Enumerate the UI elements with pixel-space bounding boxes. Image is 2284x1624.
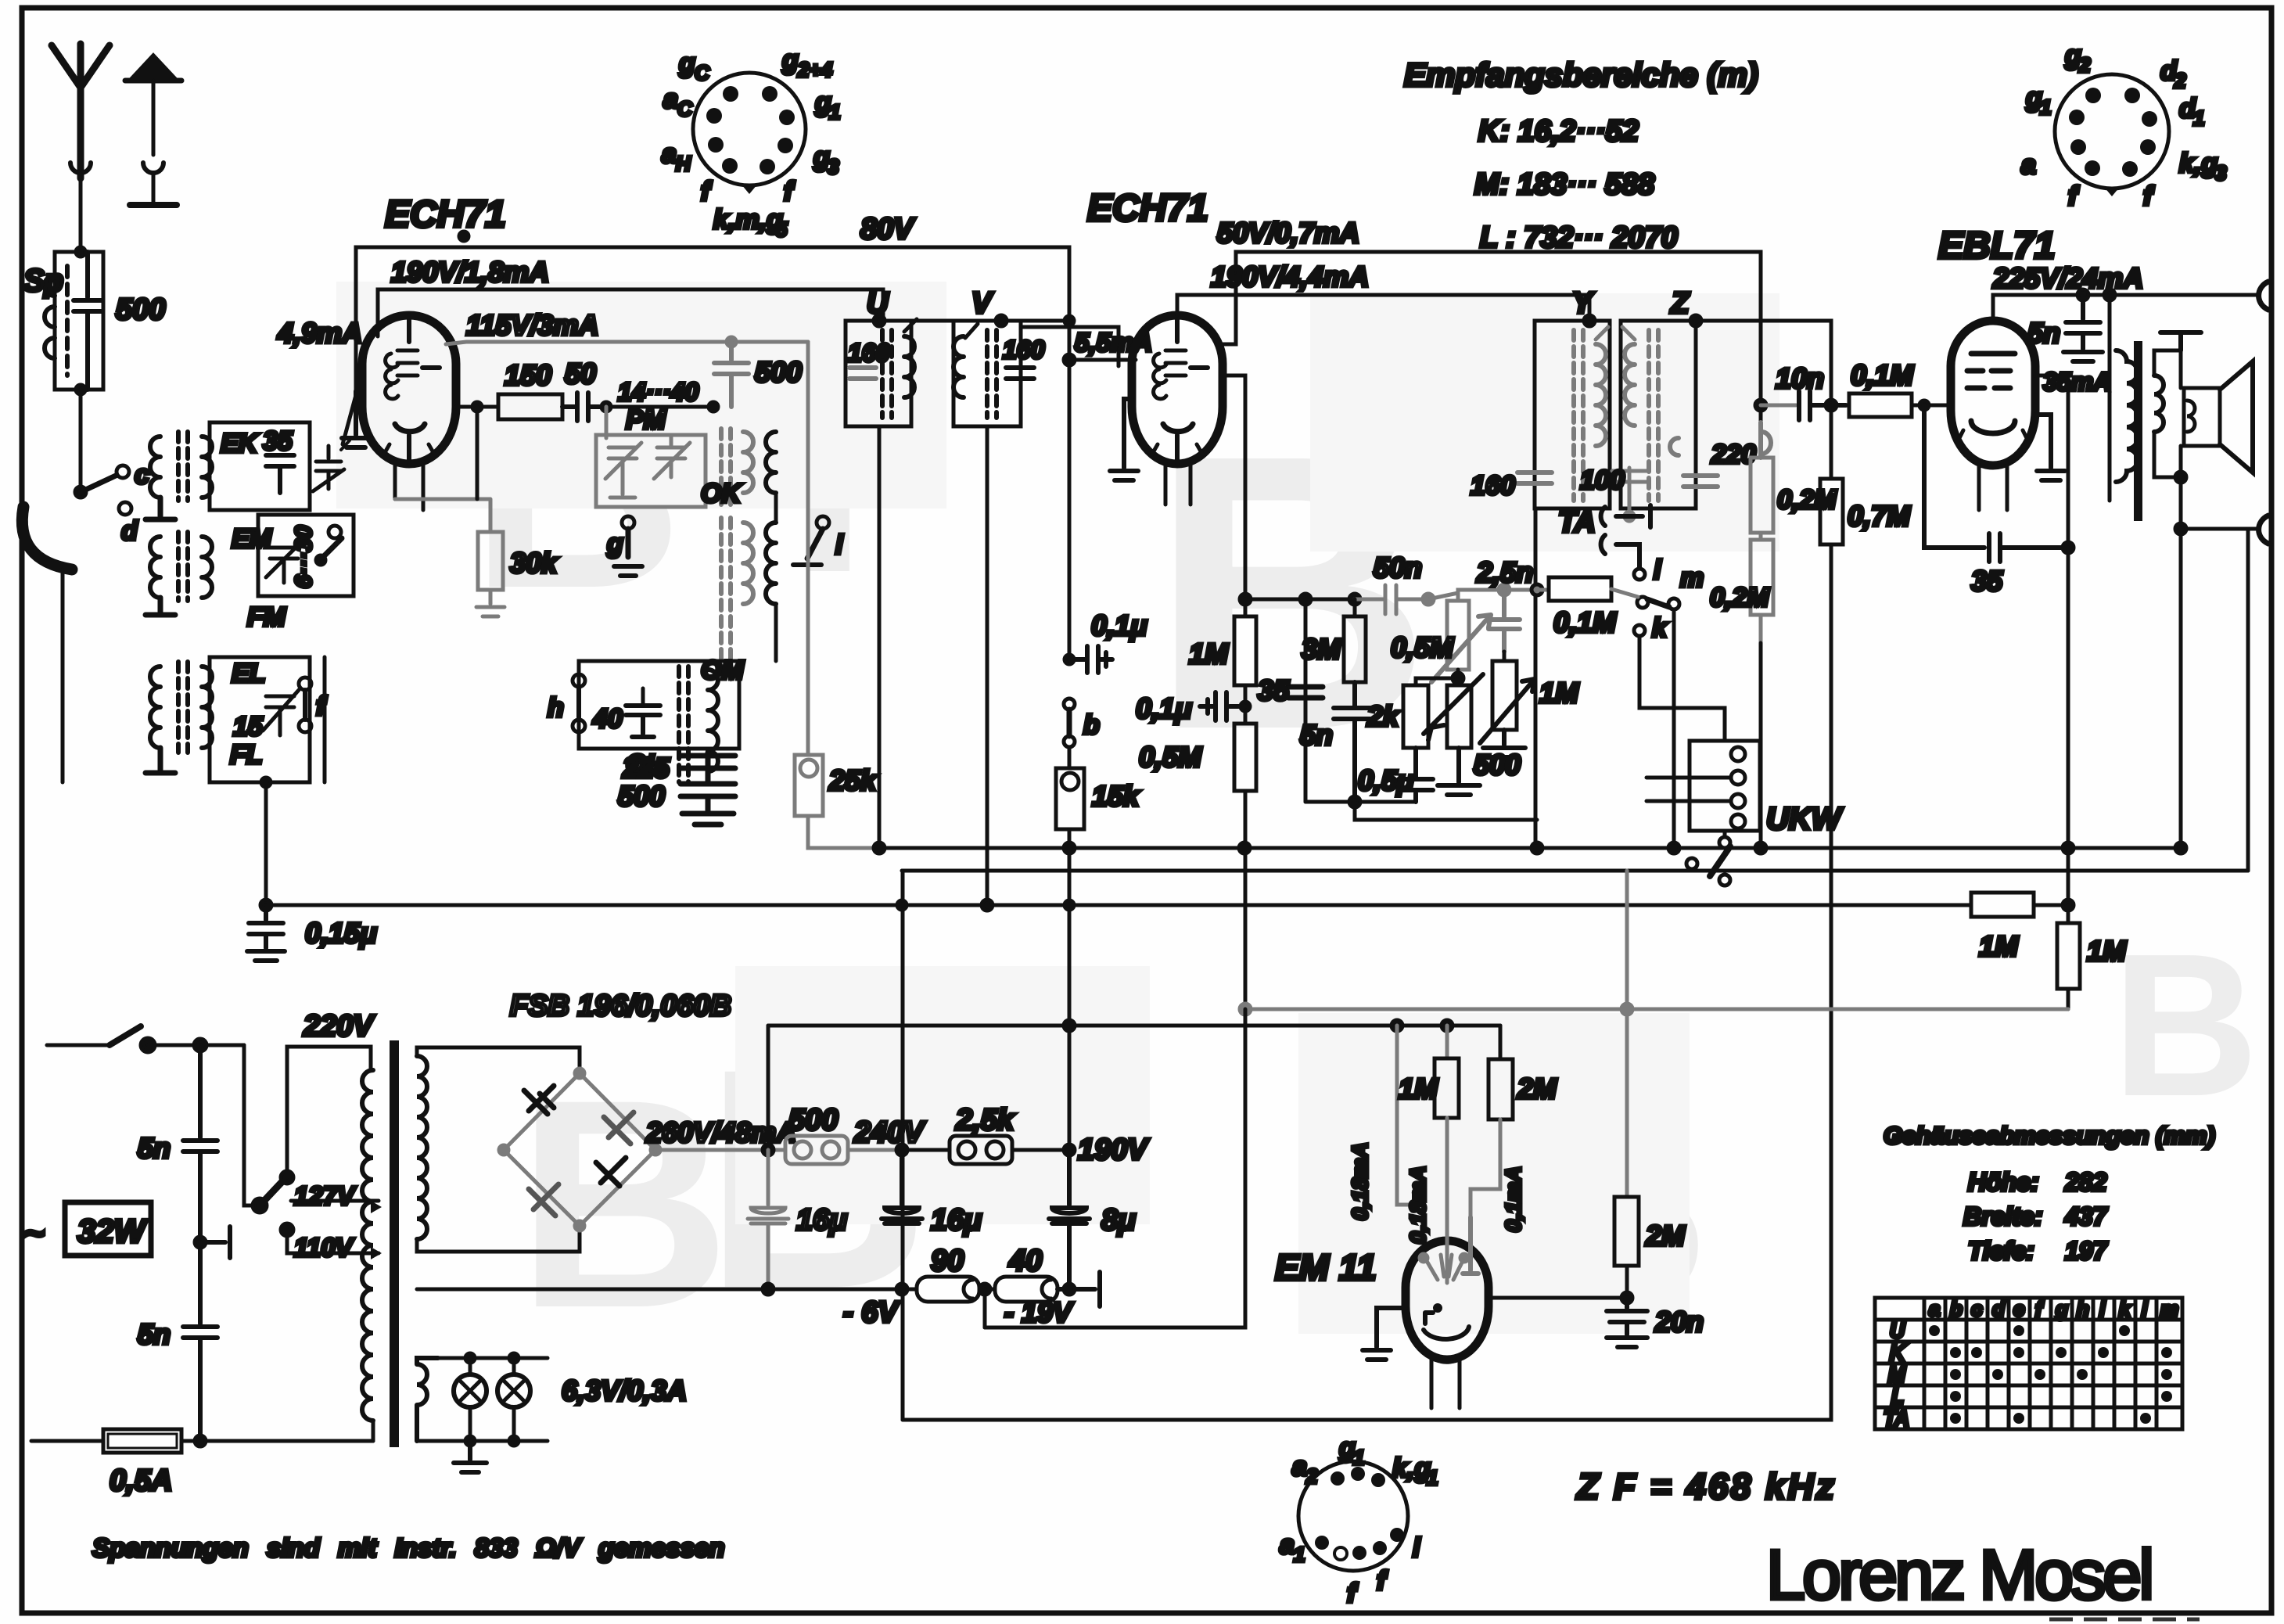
svg-text:e: e <box>2013 1297 2024 1320</box>
wire 190V/1,8mA <box>378 289 883 336</box>
svg-text:Z F = 468 kHz: Z F = 468 kHz <box>1575 1466 1837 1507</box>
svg-text:1: 1 <box>2040 95 2051 119</box>
svg-text:0,7M: 0,7M <box>1848 500 1911 532</box>
10n cap / 0,1M row <box>1755 400 1766 411</box>
switch l m k <box>1634 569 1645 580</box>
svg-text:500: 500 <box>116 293 165 326</box>
band switch c/d <box>75 487 86 498</box>
500 pot <box>1447 685 1471 748</box>
svg-text:15: 15 <box>233 712 264 742</box>
bus y=1157 with 1M resistors right <box>266 904 1971 907</box>
svg-text:TA: TA <box>1884 1407 1909 1430</box>
bus y=1113 <box>902 869 2248 873</box>
mains switch <box>47 1044 110 1047</box>
svg-text:5n: 5n <box>138 1318 171 1350</box>
svg-text:15k: 15k <box>1092 780 1140 812</box>
svg-text:ECH71: ECH71 <box>1087 188 1208 229</box>
output transformer <box>2108 295 2112 350</box>
svg-text:0,1μ: 0,1μ <box>1136 692 1192 724</box>
svg-text:Z: Z <box>1670 287 1690 320</box>
svg-text:OK: OK <box>701 479 742 508</box>
transformer primary coil <box>362 1070 373 1421</box>
svg-text:1: 1 <box>1353 1446 1364 1469</box>
svg-text:20n: 20n <box>1654 1306 1704 1338</box>
svg-text:h: h <box>548 693 564 723</box>
svg-text:m: m <box>2160 1297 2178 1320</box>
-6V bus <box>417 1288 917 1292</box>
svg-text:1M: 1M <box>2087 935 2127 967</box>
svg-text:M: 183··· 588: M: 183··· 588 <box>1474 168 1655 201</box>
svg-text:k: k <box>1652 613 1668 643</box>
EM11 ground <box>1363 1308 1406 1360</box>
fuse 0,5A <box>31 1439 103 1443</box>
svg-text:a: a <box>1929 1297 1940 1320</box>
0,2M resistor upper <box>1751 422 1773 533</box>
gray 115V/3mA anode line <box>446 337 808 407</box>
IF transformer Z <box>1621 287 1756 508</box>
svg-text:B: B <box>516 1037 731 1370</box>
svg-text:16μ: 16μ <box>931 1204 982 1237</box>
tube1 grid lead + ground <box>342 391 370 447</box>
svg-text:5n: 5n <box>138 1132 171 1164</box>
antenna coil EM group <box>145 515 354 632</box>
svg-text:B: B <box>2112 912 2259 1139</box>
svg-text:0,1mA: 0,1mA <box>1501 1166 1525 1232</box>
svg-text:d: d <box>121 516 138 546</box>
resistor 0,5M <box>1234 724 1256 791</box>
svg-text:0,15μ: 0,15μ <box>305 917 377 949</box>
svg-text:10n: 10n <box>1776 362 1824 394</box>
curved antenna coupling arc <box>22 507 72 569</box>
speaker <box>2184 388 2220 446</box>
filter caps 16u 16u 8u <box>748 1150 788 1289</box>
tube heater leads <box>1979 465 2007 510</box>
svg-text:Tiefe:: Tiefe: <box>1968 1237 2034 1265</box>
tube1 heater leads <box>395 462 423 510</box>
svg-text:160: 160 <box>1003 336 1045 364</box>
svg-text:FM: FM <box>247 602 286 632</box>
5n cap <box>1334 682 1376 802</box>
svg-text:K: K <box>1890 1341 1906 1364</box>
hexode anode down to detector <box>1223 375 1245 599</box>
svg-text:50n: 50n <box>1374 552 1422 584</box>
UKW switch <box>1719 837 1730 848</box>
svg-text:1: 1 <box>2193 106 2204 130</box>
svg-text:220V: 220V <box>303 1010 375 1043</box>
svg-text:197: 197 <box>2065 1237 2109 1265</box>
gray cathode network with 30k <box>395 499 505 616</box>
svg-text:2M: 2M <box>1645 1220 1686 1252</box>
svg-text:L: L <box>1891 1385 1904 1408</box>
wire U/V top bus <box>879 319 1069 323</box>
svg-text:g: g <box>606 529 623 559</box>
svg-text:35: 35 <box>1258 674 1290 706</box>
resistor 1M (first IF return) <box>1244 599 1248 616</box>
svg-text:190V: 190V <box>1078 1134 1149 1166</box>
svg-text:1M: 1M <box>1539 677 1579 709</box>
IF transformer V <box>953 287 1045 426</box>
wire Sp down <box>79 390 83 489</box>
svg-text:a: a <box>1292 1452 1307 1482</box>
svg-text:b: b <box>1950 1297 1963 1320</box>
switch position table <box>1875 1298 2182 1429</box>
svg-text:8μ: 8μ <box>1101 1204 1136 1237</box>
svg-text:C: C <box>677 97 693 120</box>
svg-text:C: C <box>695 61 710 84</box>
svg-text:0,5M: 0,5M <box>1139 741 1202 773</box>
watermark <box>469 317 2259 1373</box>
counterpoise antenna symbol <box>125 55 181 205</box>
cathode ground <box>2035 415 2065 480</box>
svg-text:3M: 3M <box>1302 633 1341 665</box>
240V rail up <box>767 1026 770 1150</box>
svg-text:2,5k: 2,5k <box>955 1104 1015 1137</box>
tube socket pinout EBL71 (top right) <box>2055 74 2169 196</box>
svg-text:40: 40 <box>1008 1245 1042 1277</box>
svg-text:190V/1,8mA: 190V/1,8mA <box>391 256 549 288</box>
svg-text:225V/24mA: 225V/24mA <box>1992 262 2143 294</box>
0,5u cap <box>1399 748 1433 802</box>
tube2 heater leads <box>1165 463 1190 505</box>
svg-text:500: 500 <box>618 780 665 812</box>
svg-text:Breite:: Breite: <box>1963 1202 2042 1231</box>
resistor 150 <box>498 394 562 419</box>
2,5k dropper <box>902 1148 950 1152</box>
svg-text:500: 500 <box>755 356 802 388</box>
svg-text:c: c <box>135 460 149 490</box>
svg-text:0,5M: 0,5M <box>1391 631 1454 663</box>
oscillator padder box with trimmers <box>596 407 706 507</box>
svg-text:i: i <box>2099 1297 2106 1320</box>
svg-text:190V/4,4mA: 190V/4,4mA <box>1211 260 1369 293</box>
wire 150 junction down <box>476 407 479 499</box>
EM11 grid wire to 20n <box>1489 1296 1627 1300</box>
svg-text:110V: 110V <box>294 1233 355 1262</box>
dial lamps <box>454 1374 487 1407</box>
vertical U / V returns <box>878 426 882 848</box>
switch g <box>622 516 634 529</box>
svg-text:240V: 240V <box>853 1116 925 1149</box>
UKW connector box <box>1690 741 1760 831</box>
wires input cluster to ground bus <box>264 782 268 905</box>
transformer core <box>390 1040 399 1447</box>
svg-text:Gehäuseabmessungen (mm): Gehäuseabmessungen (mm) <box>1884 1122 2215 1149</box>
svg-text:1M: 1M <box>1189 638 1229 670</box>
grid wire <box>1924 404 1951 408</box>
svg-text:EBL71: EBL71 <box>1938 225 2055 267</box>
volume pot 0,5M gray <box>1431 590 1504 682</box>
svg-text:6,3V/0,3A: 6,3V/0,3A <box>562 1374 687 1407</box>
svg-text:0,18mA: 0,18mA <box>1406 1166 1430 1244</box>
svg-text:l: l <box>2142 1297 2148 1320</box>
svg-text:Sp: Sp <box>23 264 63 298</box>
svg-text:437: 437 <box>2064 1202 2109 1231</box>
5n cap + ground <box>2063 295 2103 361</box>
svg-text:30k: 30k <box>510 547 558 579</box>
capacitor 225 <box>681 753 735 771</box>
svg-text:2+4: 2+4 <box>797 58 833 81</box>
vertical 80V rail down: 0,1u cap and switch b and 15k <box>1068 360 1072 657</box>
phones jack top right <box>2259 282 2268 310</box>
tube EM11 <box>1406 1241 1489 1360</box>
svg-text:H: H <box>676 152 691 175</box>
svg-text:Lorenz Mosel: Lorenz Mosel <box>1766 1536 2151 1615</box>
svg-text:i: i <box>835 530 844 560</box>
100 cap gray to TA <box>1612 468 1647 521</box>
svg-text:a: a <box>2021 150 2036 180</box>
tube socket pinout EM11 (bottom) <box>1298 1461 1408 1571</box>
svg-text:100: 100 <box>1580 465 1625 495</box>
capacitor 500 <box>681 768 735 810</box>
svg-text:3: 3 <box>828 155 839 178</box>
svg-text:2: 2 <box>2078 53 2091 77</box>
svg-text:k,g: k,g <box>1392 1453 1431 1483</box>
svg-text:EL: EL <box>232 659 265 688</box>
switch i <box>817 516 829 529</box>
ground <box>682 814 734 825</box>
svg-text:0,1M: 0,1M <box>1553 606 1617 638</box>
tube ECH71 no.1 <box>362 315 456 464</box>
wire antenna to Sp coil <box>79 174 83 252</box>
svg-text:1: 1 <box>1427 1466 1438 1489</box>
heater secondary 6,3V <box>417 1358 438 1441</box>
svg-text:2k: 2k <box>1366 700 1400 732</box>
voltage selector <box>244 1045 260 1205</box>
svg-text:L : 732··· 2070: L : 732··· 2070 <box>1480 221 1678 254</box>
svg-text:150: 150 <box>505 359 551 391</box>
svg-text:U: U <box>1890 1319 1905 1342</box>
tube socket pinout ECH71 (top middle) <box>693 73 806 194</box>
svg-text:k,g: k,g <box>2179 149 2218 178</box>
svg-text:k: k <box>2119 1297 2131 1320</box>
svg-text:k,m,g: k,m,g <box>713 205 783 235</box>
wire oscillator coil links <box>774 493 778 661</box>
svg-text:d: d <box>1992 1297 2006 1320</box>
IF transformer U <box>846 287 917 426</box>
chassis tap <box>195 1237 206 1248</box>
svg-text:160: 160 <box>1471 471 1515 501</box>
svg-text:0,5μ: 0,5μ <box>1358 764 1414 796</box>
svg-text:0,2M: 0,2M <box>1710 583 1769 613</box>
svg-text:0,1M: 0,1M <box>1851 359 1914 391</box>
svg-text:ECH71: ECH71 <box>385 194 506 235</box>
90 / 40 resistors <box>917 1277 979 1302</box>
svg-text:2,5n: 2,5n <box>1476 556 1533 588</box>
svg-text:a: a <box>662 139 677 169</box>
1M tone pot <box>1503 652 1507 661</box>
grid wire to 150 resistor <box>456 405 498 409</box>
svg-text:V: V <box>971 287 993 320</box>
oscillator coil OL box <box>548 661 739 782</box>
long bus y=1084 <box>879 846 2181 850</box>
bridge rectifier <box>499 1069 660 1231</box>
svg-text:g: g <box>781 45 799 75</box>
svg-text:EM: EM <box>232 524 272 554</box>
svg-text:Spannungen sind mit Instr.: Spannungen sind mit Instr. 833 Ω/V gemes… <box>92 1533 724 1562</box>
svg-text:5n: 5n <box>1300 719 1333 751</box>
5,5mA feed <box>1064 354 1075 365</box>
svg-text:0,5A: 0,5A <box>110 1464 172 1497</box>
svg-text:1M: 1M <box>1399 1072 1438 1105</box>
EM11 divider resistors <box>1397 1026 1447 1205</box>
svg-text:90: 90 <box>931 1245 964 1277</box>
svg-text:a: a <box>663 84 678 114</box>
wire Z top to detector rail <box>1696 321 1831 405</box>
svg-text:0,18mA: 0,18mA <box>1348 1142 1372 1220</box>
svg-text:TA: TA <box>1558 506 1596 539</box>
svg-text:282: 282 <box>2064 1168 2107 1196</box>
svg-text:32W: 32W <box>77 1213 148 1249</box>
0,7M resistor <box>1830 405 1833 479</box>
svg-text:a: a <box>1280 1530 1295 1560</box>
gray vertical 115V rail down to 25k <box>795 342 879 848</box>
2,5n cap gray <box>1489 584 1537 652</box>
35 feedback cap loop <box>1924 405 2068 562</box>
svg-text:FSB 196/0,060B: FSB 196/0,060B <box>510 990 731 1022</box>
svg-text:1: 1 <box>829 100 840 124</box>
svg-text:~: ~ <box>23 1213 45 1253</box>
svg-text:50: 50 <box>565 357 596 390</box>
svg-text:l: l <box>1413 1533 1421 1563</box>
bottom loop of detector network <box>1305 800 1416 804</box>
svg-text:40: 40 <box>592 704 623 734</box>
capacitor 0,15u to ground <box>247 900 285 961</box>
svg-text:35mA: 35mA <box>2043 368 2111 396</box>
gray AVC bus y=1290 <box>1240 1004 2068 1015</box>
svg-text:3: 3 <box>2215 161 2227 185</box>
svg-text:127V: 127V <box>294 1181 357 1210</box>
svg-text:Empfangsbereiche (m): Empfangsbereiche (m) <box>1404 56 1758 93</box>
20n cap + ground <box>1607 1298 1647 1347</box>
svg-text:0,1μ: 0,1μ <box>1091 609 1147 641</box>
svg-text:Höhe:: Höhe: <box>1968 1168 2039 1196</box>
OM coil set <box>721 518 753 673</box>
svg-text:1: 1 <box>1294 1543 1305 1566</box>
svg-text:EM 11: EM 11 <box>1275 1247 1377 1288</box>
svg-text:b: b <box>1083 710 1100 740</box>
svg-text:115V/3mA: 115V/3mA <box>466 309 598 341</box>
svg-text:g: g <box>2055 1297 2068 1320</box>
svg-text:14···40: 14···40 <box>618 378 698 406</box>
svg-text:500: 500 <box>1474 749 1521 781</box>
500 dropper <box>785 1136 902 1164</box>
svg-text:m: m <box>1680 563 1704 593</box>
OK coil set <box>721 429 753 505</box>
50n cap gray <box>1355 585 1458 614</box>
svg-text:0,2M: 0,2M <box>1777 485 1837 515</box>
svg-text:260V/48mA: 260V/48mA <box>645 1116 796 1148</box>
antenna symbol <box>52 44 110 178</box>
0,2M resistor lower <box>1751 533 1773 643</box>
wire V to tube2 grid <box>1021 327 1119 366</box>
svg-text:35: 35 <box>1971 565 2003 597</box>
tube EBL71 <box>1951 321 2035 465</box>
svg-text:2: 2 <box>1305 1464 1318 1488</box>
wire 50V/0,7mA <box>1219 252 1761 422</box>
svg-text:l: l <box>1654 555 1662 585</box>
svg-text:h: h <box>2077 1297 2089 1320</box>
svg-text:35: 35 <box>263 426 293 456</box>
IF transformer Y <box>1471 287 1610 508</box>
svg-text:K: 16,2···52: K: 16,2···52 <box>1478 115 1639 148</box>
2M resistor right <box>1625 871 1629 1197</box>
3M resistor <box>1353 599 1357 616</box>
tube2 ground <box>1110 399 1138 480</box>
0,1u coupling cap <box>1244 685 1248 724</box>
wire 80V <box>356 247 1069 391</box>
tube ECH71 no.2 <box>1132 315 1223 464</box>
svg-text:4,9mA: 4,9mA <box>277 317 362 349</box>
svg-text:50V/0,7mA: 50V/0,7mA <box>1217 217 1359 249</box>
svg-text:FL: FL <box>230 740 263 770</box>
svg-text:c: c <box>1971 1297 1983 1320</box>
AVC node row <box>1240 594 1251 605</box>
0,1M resistor to m switch <box>1534 508 1538 848</box>
svg-text:M: M <box>1888 1363 1906 1386</box>
svg-text:g: g <box>678 49 695 78</box>
wire 190V/4,4mA <box>1177 295 1589 321</box>
EM11 supply bus <box>768 1024 1500 1028</box>
antenna coil EL / FL group <box>145 657 328 782</box>
B+ line <box>655 1148 785 1152</box>
Sp input coil with 500 cap <box>45 247 103 394</box>
svg-text:500: 500 <box>788 1104 838 1137</box>
svg-text:EK: EK <box>221 429 260 458</box>
2k resistor <box>1403 685 1428 748</box>
5n cap 2 <box>183 1242 217 1441</box>
svg-text:16μ: 16μ <box>796 1204 847 1237</box>
svg-text:6···30: 6···30 <box>291 526 317 588</box>
antenna coil EK group <box>145 422 350 519</box>
5n cap 1 <box>183 1045 217 1239</box>
detector rail down to -19V <box>985 1009 1245 1328</box>
35 cap <box>1304 599 1308 802</box>
svg-text:PM: PM <box>626 405 666 435</box>
speaker return to jack <box>2181 477 2257 529</box>
svg-text:2M: 2M <box>1517 1072 1557 1105</box>
svg-text:5: 5 <box>776 217 788 241</box>
190V rail up <box>1068 848 1072 1150</box>
svg-text:2: 2 <box>2174 69 2186 92</box>
capacitor 50 <box>562 393 604 421</box>
svg-text:225: 225 <box>622 752 670 784</box>
svg-text:1M: 1M <box>1979 930 2019 962</box>
svg-text:80V: 80V <box>860 213 915 246</box>
svg-text:- 6V: - 6V <box>843 1296 900 1329</box>
HV secondary <box>417 1056 427 1239</box>
svg-text:25k: 25k <box>828 764 878 796</box>
